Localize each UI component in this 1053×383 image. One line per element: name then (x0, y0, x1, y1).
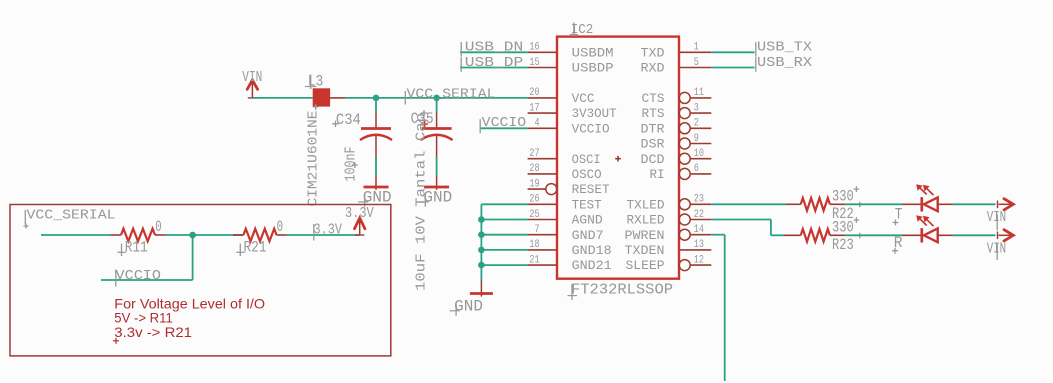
wire pin 5 RXD to USB_RX (711, 67, 754, 69)
capacitor top plate (361, 127, 391, 130)
wire pin 1 TXD to USB_TX (711, 51, 754, 53)
wire R22 to LED1 (845, 203, 902, 205)
wire ground bus to pin row 11 (481, 219, 527, 221)
wire capacitor to GND (436, 157, 438, 176)
svg-text:21: 21 (529, 254, 539, 266)
svg-text:USBDM: USBDM (572, 45, 614, 60)
svg-text:100nF: 100nF (343, 147, 360, 182)
pin 20 VCC stub (528, 97, 557, 99)
pin 22 RXLED stub (679, 214, 690, 225)
svg-text:10: 10 (694, 148, 704, 160)
wire USB_DN to pin 16 (460, 51, 528, 53)
svg-text:330: 330 (832, 219, 854, 237)
svg-text:17: 17 (529, 102, 539, 114)
wire R11 to R21 with junction (165, 234, 243, 236)
svg-text:USB_DN: USB_DN (465, 40, 524, 56)
svg-text:15: 15 (529, 57, 539, 69)
junction node ground bus (478, 231, 485, 238)
svg-text:26: 26 (529, 194, 539, 206)
resistor R21 (233, 234, 243, 236)
svg-text:RESET: RESET (572, 182, 610, 197)
svg-text:OSCO: OSCO (572, 167, 602, 182)
svg-text:12: 12 (694, 254, 704, 266)
pin 9 DSR stub (679, 138, 690, 149)
svg-text:6: 6 (694, 163, 699, 175)
wire VCCIO branch (101, 279, 193, 281)
junction node ground bus (478, 262, 485, 269)
junction node at C34 (373, 95, 380, 102)
wire ground bus to pin row 10 (481, 203, 527, 205)
svg-text:RTS: RTS (642, 106, 665, 121)
svg-text:R23: R23 (832, 236, 854, 254)
svg-text:5: 5 (694, 57, 699, 69)
wire VCCIO to pin 4 (480, 127, 528, 129)
svg-text:USB_DP: USB_DP (465, 55, 524, 71)
svg-text:OSCI: OSCI (572, 152, 601, 167)
pin 18 GND18 stub (528, 249, 557, 251)
capacitor bottom lead (436, 136, 438, 157)
svg-text:3.3V: 3.3V (314, 223, 343, 239)
wire from VCC_SERIAL down to capacitor at x=376 (375, 98, 377, 113)
pin 26 TEST stub (528, 203, 557, 205)
svg-text:18: 18 (529, 239, 539, 251)
svg-text:RXLED: RXLED (627, 213, 665, 228)
supply symbol VIN right top (997, 201, 999, 209)
svg-text:FT232RLSSOP: FT232RLSSOP (571, 283, 673, 299)
wire LED1 to VIN (953, 203, 996, 205)
wire ground bus to pin row 12 (481, 234, 527, 236)
junction node ground bus (478, 247, 485, 254)
svg-text:1: 1 (694, 42, 699, 54)
pin 16 USBDM stub (528, 51, 557, 53)
svg-text:13: 13 (694, 239, 704, 251)
svg-text:20: 20 (529, 87, 539, 99)
pin 13 TXDEN stub (679, 249, 711, 251)
svg-text:GND7: GND7 (572, 228, 604, 243)
capacitor bottom lead (375, 136, 377, 157)
svg-text:GND: GND (454, 297, 483, 315)
LED triangle (924, 197, 938, 211)
pin 25 AGND stub (528, 219, 557, 221)
LED emission arrows (920, 188, 933, 195)
junction node ground bus (478, 216, 485, 223)
svg-text:VIN: VIN (987, 209, 1007, 226)
svg-text:9: 9 (694, 133, 699, 145)
pin 28 OSCO stub (528, 173, 557, 175)
svg-text:VCCIO: VCCIO (572, 121, 610, 136)
svg-text:SLEEP: SLEEP (626, 258, 665, 273)
svg-text:3V3OUT: 3V3OUT (572, 106, 617, 121)
supply symbol VIN right bottom (997, 232, 999, 240)
svg-text:USBDP: USBDP (572, 61, 614, 76)
svg-text:4: 4 (535, 118, 540, 130)
svg-text:0: 0 (277, 218, 284, 236)
LED pin stubs (902, 234, 921, 236)
pin 2 DTR stub (679, 123, 690, 134)
svg-text:19: 19 (529, 178, 539, 190)
svg-text:DCD: DCD (641, 152, 665, 167)
ground symbol bar (424, 186, 449, 189)
svg-text:VCC_SERIAL: VCC_SERIAL (407, 86, 496, 102)
wire VCC_SERIAL to R11 (41, 234, 110, 236)
op IC2 FT232RLSSOP body (557, 37, 679, 279)
pin 4 VCCIO stub (528, 127, 557, 129)
svg-text:TXDEN: TXDEN (625, 243, 665, 258)
svg-text:VCCIO: VCCIO (482, 115, 527, 131)
resistor R23 (784, 234, 801, 236)
svg-text:CIM21U601NE: CIM21U601NE (305, 111, 321, 207)
wire USB_DP to pin 15 (460, 67, 528, 69)
svg-text:DSR: DSR (641, 137, 665, 152)
svg-text:3.3v -> R21: 3.3v -> R21 (114, 324, 192, 340)
svg-text:0: 0 (155, 218, 162, 236)
junction node at C35 (433, 95, 440, 102)
wire ground bus vertical (480, 204, 482, 280)
svg-text:PWREN: PWREN (625, 228, 665, 243)
svg-text:27: 27 (529, 148, 539, 160)
svg-text:16: 16 (529, 42, 539, 54)
svg-text:28: 28 (529, 163, 539, 175)
wire pin 22 RXLED elbow (711, 219, 771, 221)
svg-text:VIN: VIN (242, 69, 262, 86)
svg-text:VCC_SERIAL: VCC_SERIAL (27, 208, 116, 224)
svg-text:3: 3 (694, 102, 699, 114)
svg-text:VCCIO: VCCIO (116, 268, 162, 284)
LED cathode bar (920, 197, 923, 211)
pin 15 USBDP stub (528, 67, 557, 69)
wire capacitor to GND (375, 157, 377, 176)
inductor L3 ferrite bead (313, 88, 330, 106)
svg-text:CTS: CTS (642, 91, 665, 106)
capacitor top plate (422, 127, 452, 130)
svg-text:R11: R11 (125, 238, 148, 256)
pin 3 RTS stub (679, 108, 690, 119)
pin 1 TXD stub (679, 51, 711, 53)
svg-text:11: 11 (694, 87, 704, 99)
svg-text:USB_TX: USB_TX (757, 40, 813, 56)
frame voltage-select note box (10, 205, 391, 356)
pin 11 CTS stub (679, 92, 690, 103)
wire pin 23 TXLED to R22 (711, 203, 786, 205)
wire VIN to L3 (252, 97, 312, 99)
pin 5 RXD stub (679, 67, 711, 69)
wire LED2 to VIN (953, 234, 996, 236)
pin 17 3V3OUT stub (528, 112, 557, 114)
pin 6 RI stub (679, 168, 690, 179)
svg-text:VCC: VCC (572, 91, 595, 106)
resistor R22 (786, 203, 801, 205)
IC origin cross (615, 156, 621, 162)
svg-text:GND18: GND18 (572, 243, 612, 258)
ground symbol bar (364, 186, 389, 189)
pin 12 SLEEP stub (679, 260, 690, 271)
LED cathode bar (920, 228, 923, 242)
pin 14 PWREN stub (679, 229, 690, 240)
svg-text:22: 22 (694, 209, 704, 221)
wire ground bus to pin row 14 (481, 264, 527, 266)
capacitor curved bottom plate (360, 135, 392, 140)
svg-text:25: 25 (529, 209, 539, 221)
supply symbol 3.3V (355, 218, 365, 229)
svg-text:C34: C34 (336, 111, 361, 129)
svg-text:RXD: RXD (641, 61, 665, 76)
svg-text:DTR: DTR (641, 121, 665, 136)
wire R21 to 3.3V supply (287, 234, 360, 236)
svg-text:3.3V: 3.3V (345, 205, 374, 222)
supply symbol VIN top-left (247, 80, 257, 89)
pin 10 DCD stub (679, 153, 690, 164)
LED emission arrows (920, 219, 933, 226)
pin 19 RESET stub (528, 188, 547, 190)
LED triangle (924, 228, 938, 242)
svg-text:330: 330 (832, 188, 854, 206)
pin 21 GND21 stub (528, 264, 557, 266)
svg-text:TXLED: TXLED (627, 197, 665, 212)
svg-text:GND: GND (423, 188, 452, 206)
pin 27 OSCI stub (528, 158, 557, 160)
svg-text:7: 7 (535, 224, 540, 236)
pin 7 GND7 stub (528, 234, 557, 236)
wire from VCC_SERIAL down to capacitor at x=436.6 (436, 98, 438, 113)
svg-text:USB_RX: USB_RX (757, 55, 813, 71)
LED pin stubs (902, 203, 921, 205)
svg-text:R21: R21 (244, 238, 267, 256)
wire R23 to LED2 (845, 234, 902, 236)
wire pin 14 PWREN down off page (711, 234, 724, 236)
junction node VCCIO tap (189, 232, 196, 239)
svg-text:14: 14 (694, 224, 704, 236)
pin 23 TXLED stub (679, 199, 690, 210)
svg-text:AGND: AGND (572, 213, 603, 228)
svg-text:GND: GND (363, 188, 392, 206)
svg-text:TEST: TEST (572, 197, 602, 212)
svg-text:RI: RI (650, 167, 665, 182)
svg-text:2: 2 (694, 118, 699, 130)
svg-text:GND21: GND21 (572, 258, 612, 273)
svg-text:23: 23 (694, 194, 704, 206)
capacitor curved bottom plate (421, 135, 453, 140)
L3 right pin stub (330, 97, 345, 99)
wire ground bus to pin row 13 (481, 249, 527, 251)
svg-text:TXD: TXD (641, 45, 665, 60)
wire L3 to IC pin 20 VCC (345, 97, 528, 99)
svg-text:VIN: VIN (987, 240, 1007, 257)
ground symbol below IC (480, 281, 482, 297)
resistor R11 (110, 234, 121, 236)
